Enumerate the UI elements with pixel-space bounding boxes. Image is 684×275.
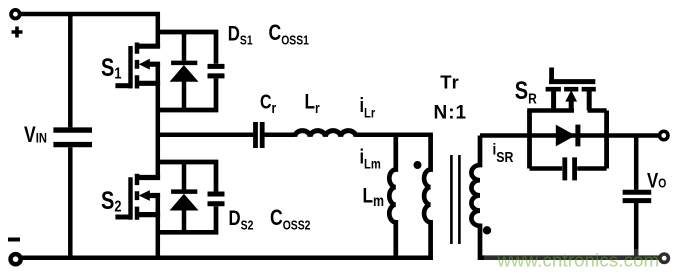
wire SR source bus (588, 108, 607, 113)
primary polarity dot (414, 161, 422, 169)
wire Cr to Lr (265, 132, 296, 137)
synchronous rectifier box right side (604, 111, 609, 169)
diode DS2 (body diode of S2) (170, 162, 199, 232)
diode SR body diode (556, 125, 578, 147)
terminal output negative (660, 254, 668, 262)
transistor S2 (115, 174, 160, 220)
wire top rail to S1 drain (20, 14, 158, 46)
terminal output positive (660, 131, 668, 139)
inductor Lr (resonant inductor) (295, 131, 356, 137)
diode DS1 (body diode of S1) (170, 32, 199, 110)
terminal negative input (11, 254, 21, 264)
transistor S1 (115, 43, 160, 89)
svg-text:Tr: Tr (440, 72, 459, 93)
transformer core (451, 155, 459, 244)
transformer Tr primary winding (424, 135, 431, 258)
capacitor Co (output cap) (623, 136, 652, 258)
capacitor Cr (resonant cap) (256, 122, 263, 148)
svg-text:N:1: N:1 (434, 103, 468, 124)
wire SR drain bus (527, 108, 574, 113)
wire secondary top to output (480, 133, 659, 138)
terminal positive input (11, 10, 20, 19)
wire S2 source to bottom rail (156, 196, 161, 258)
transistor SR (546, 68, 596, 111)
capacitor COSS1 (158, 32, 225, 110)
svg-text:www.cntronics.com: www.cntronics.com (497, 250, 660, 271)
wire midpoint to Cr (158, 132, 253, 137)
wire Lr to transformer primary (356, 132, 433, 137)
capacitor SR output capacitance (530, 157, 607, 180)
capacitor COSS2 (158, 162, 225, 232)
synchronous rectifier box left side (527, 111, 532, 169)
plus sign (12, 27, 23, 38)
minus sign (8, 238, 20, 242)
transformer Tr secondary winding (471, 136, 659, 258)
wire bottom rail primary side (20, 255, 434, 260)
secondary polarity dot (483, 226, 491, 234)
watermark band (484, 249, 684, 272)
inductor Lm (magnetizing inductance) (389, 135, 396, 258)
capacitor Cin (input cap) (53, 14, 92, 258)
wire midpoint vertical (S1 source to S2 drain) (156, 64, 161, 177)
